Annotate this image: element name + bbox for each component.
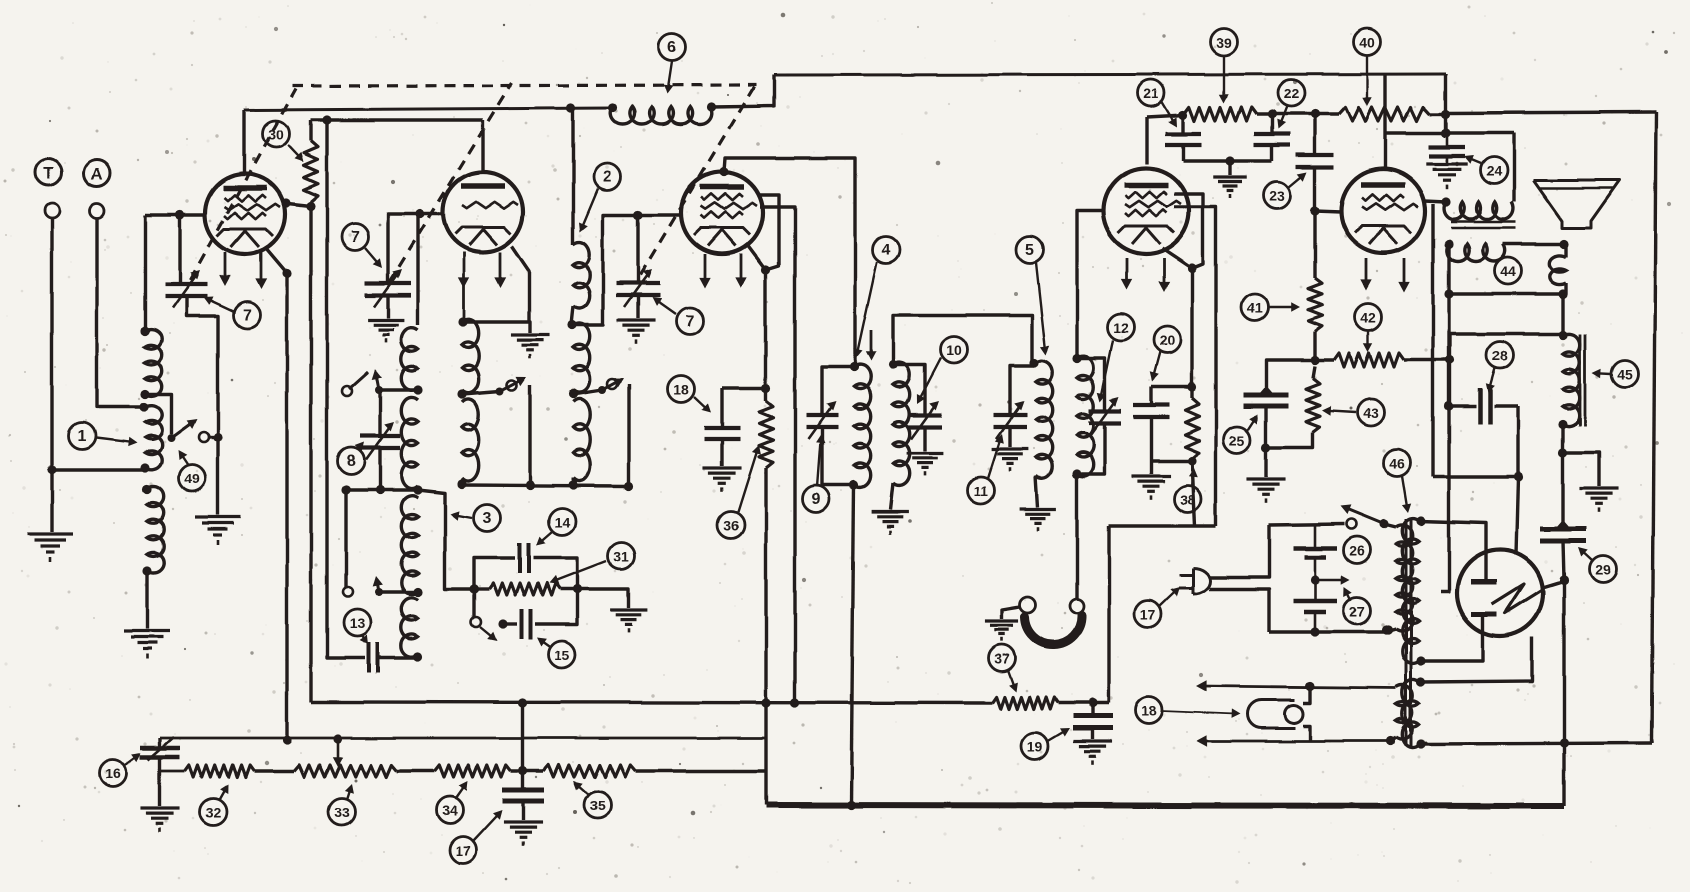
label 19 pointer (1048, 730, 1067, 741)
coil jack loop right loops (1549, 255, 1566, 284)
junction feedback line branch (322, 115, 331, 124)
capacitor C17 (502, 788, 544, 793)
wire bus end to C16 (158, 738, 161, 747)
junction coil A top (458, 317, 467, 326)
terminal T (earth) (35, 159, 62, 186)
wire anode branch down to C28 network (1431, 204, 1434, 477)
coil T-out secondary (1447, 244, 1505, 262)
svg-text:23: 23 (1269, 188, 1285, 204)
wire supply box top (1109, 524, 1216, 527)
wire to tuning cap 7a (178, 215, 181, 283)
wire bias return (1151, 459, 1192, 462)
label 1 pointer (96, 438, 134, 443)
dashed gang line from cap 7a (190, 89, 296, 280)
svg-text:41: 41 (1247, 300, 1263, 316)
coil L8 winding section 2 (401, 397, 418, 488)
junction cap 18 branch (761, 383, 770, 392)
pilot lamp 48 (1248, 700, 1295, 728)
wire cap 10 to ground (923, 427, 926, 451)
battery B1 cell 2 (1293, 599, 1337, 604)
junction filament top (1416, 677, 1425, 686)
wire grid node to cap 7b (388, 214, 420, 281)
wire R31 right lead (560, 587, 577, 590)
label 28 pointer (1489, 368, 1495, 390)
svg-text:30: 30 (268, 127, 284, 143)
ground (field return) (1579, 486, 1618, 489)
wire C18 to ground (720, 440, 723, 466)
junction battery tap (1310, 575, 1319, 584)
wire pilot winding top lead with arrow (1202, 686, 1396, 688)
svg-text:5: 5 (1026, 242, 1035, 259)
label 7 (677, 308, 704, 335)
svg-text:7: 7 (351, 229, 360, 246)
junction bottom rail / primary (1381, 625, 1390, 634)
wire W1 left down to switch 13 (344, 490, 347, 588)
ground (coil 10) (872, 510, 909, 513)
wire link to R31 network (418, 490, 474, 589)
ground (R31 network) (611, 608, 648, 611)
label 18 (1136, 697, 1163, 724)
wire C15 left lead (503, 622, 517, 625)
wire primary bottom stub (1389, 629, 1396, 631)
coil T46 HT secondary (1402, 519, 1419, 664)
junction R30 bottom (306, 201, 315, 210)
wire L2s bottom (571, 478, 574, 485)
label 11 (968, 477, 995, 504)
wire R36 bottom to HT- bus (764, 468, 767, 805)
junction coil 12 top (1072, 353, 1081, 362)
wire cap 8 top lead (378, 391, 381, 434)
svg-text:20: 20 (1159, 333, 1175, 349)
wire cap 11 lead (1010, 366, 1034, 414)
coil L8 winding section 4 (401, 598, 418, 657)
wire R39 left lead (1147, 115, 1184, 117)
wire switch to primary (1384, 524, 1396, 527)
battery tap (1315, 579, 1344, 582)
label 11 pointer (988, 437, 1001, 478)
wire cathode/AVC line down (764, 270, 767, 401)
junction V3 anode stub (719, 167, 728, 176)
wire plug bottom lead (1209, 589, 1269, 632)
wire coil1 secondary to ground (145, 571, 148, 629)
wire C19 top lead (1091, 703, 1094, 715)
wire HT rail (top bus) (774, 74, 1446, 75)
wire DC minus riser (1562, 580, 1565, 806)
wire jack loop left edge (1447, 244, 1450, 294)
label 26 (1344, 537, 1371, 564)
wire V5 anode to output transformer (1424, 201, 1446, 202)
junction jack loop bottom left (1444, 289, 1453, 298)
label 14 pointer (538, 532, 552, 544)
wire C29 bottom (1563, 541, 1564, 580)
wire plug top lead (1209, 525, 1269, 577)
coil L45 (speaker field) (1563, 334, 1580, 426)
junction R31 left node (469, 584, 478, 593)
wire battery bottom rail (1269, 630, 1390, 633)
switch mains (on-off) (1380, 520, 1388, 528)
resistor R33 (potentiometer) (294, 765, 397, 777)
label 20 (1154, 327, 1181, 354)
wire V4 cathode (1162, 248, 1192, 268)
ground (C24) (1426, 162, 1467, 165)
svg-text:18: 18 (1141, 703, 1157, 719)
junction coil4 return / bus (846, 800, 855, 809)
junction V3 grid / cap 7c (633, 210, 642, 219)
junction coil1 secondary bottom (142, 566, 151, 575)
junction coil1 upper top (140, 326, 149, 335)
wire field node to C29 (1561, 452, 1564, 528)
junction coil1 secondary top (142, 484, 151, 493)
svg-text:4: 4 (882, 242, 891, 259)
svg-text:7: 7 (243, 307, 252, 324)
wire coil 4 bottom to HT- bus (851, 485, 854, 805)
junction L2s tap (568, 389, 577, 398)
wire cap 9 bracket bottom (822, 427, 854, 485)
ground (cap 7b) (368, 318, 405, 321)
V5 filament pin (1403, 258, 1406, 288)
label 3 pointer (453, 515, 472, 518)
label 13 (344, 610, 371, 637)
junction coil6 left (608, 103, 617, 112)
junction L8 tap 1 (413, 385, 422, 394)
label 27 (1344, 598, 1371, 625)
junction C15 lead (498, 619, 507, 628)
label 18 pointer (lamp) (1162, 711, 1236, 714)
wire R34-R35 (511, 769, 543, 772)
resistor R31 (489, 583, 560, 595)
wire V4 screen right (1174, 194, 1203, 268)
junction R39 right / C22 (1267, 109, 1276, 118)
wire R38 bottom (1190, 459, 1193, 461)
wire lamp bottom lead (1303, 726, 1310, 741)
wire V2 grid left (420, 212, 443, 215)
label 19 (1022, 733, 1049, 760)
svg-text:38: 38 (1180, 492, 1196, 508)
wire C28 lead (1449, 404, 1476, 407)
wire C28 rail to coil 45 (1450, 334, 1563, 360)
label 8 (338, 448, 365, 475)
wire primary bottom (1388, 628, 1391, 632)
wire cap 7a bottom (186, 297, 218, 433)
wire V3 screen grid right (758, 195, 779, 270)
ground (C25) (1246, 477, 1285, 480)
label 45 pointer (1595, 372, 1611, 375)
dashed gang line from cap 7c (640, 87, 754, 275)
ground (C16) (140, 806, 179, 809)
dashed gang line from cap 7b (389, 83, 512, 283)
coil T46 primary (1396, 525, 1413, 631)
wire coil 10 to ground (890, 483, 893, 510)
coil L5 (2nd IF primary) (1036, 361, 1053, 479)
wire R43 bottom (1266, 432, 1313, 448)
ground (C10) (907, 451, 944, 454)
svg-text:33: 33 (334, 805, 350, 821)
wire L2s tap to switch (576, 390, 602, 394)
label 41 pointer (1269, 306, 1297, 308)
core coil 45 (1579, 334, 1582, 426)
svg-text:10: 10 (946, 343, 962, 359)
wire bottom branch (472, 589, 475, 618)
wire switch 49 to ground line (209, 435, 218, 438)
wire V1 grid-2 to resistor 30 (283, 203, 311, 206)
wire C28 left lead (1448, 360, 1451, 406)
junction link W1 left (341, 485, 350, 494)
junction A-wire at coil1 (139, 402, 148, 411)
wire C13 to L8 bottom (378, 656, 418, 659)
wire top branch to C14 (474, 558, 515, 589)
wire R30 bottom down (screen line) (309, 206, 312, 702)
wire HT sec bottom to lower plate (1419, 616, 1483, 661)
ground (C21/C22) (1213, 175, 1248, 178)
wire cap 20 lead (1151, 385, 1192, 388)
V6 filament zigzag electrode (1492, 584, 1542, 613)
junction bottom right rail (1559, 738, 1568, 747)
coil L2 secondary section 1 (573, 323, 590, 392)
capacitor C29 (reservoir) (1540, 527, 1586, 532)
terminal A binding post (90, 204, 105, 219)
junction cathode line / lower bus (282, 735, 291, 744)
svg-text:17: 17 (455, 843, 471, 859)
junction C29 / rectifier output (1559, 575, 1568, 584)
label 23 (1264, 182, 1291, 209)
wire lamp top lead (1303, 686, 1310, 703)
capacitor C14 (518, 543, 522, 573)
capacitor C7b (ganged tuning) (365, 281, 411, 285)
junction cap8 / link wire (375, 485, 384, 494)
headphone plug arc (1025, 615, 1082, 645)
label 2 pointer (581, 189, 598, 229)
wire resistor chain line (160, 770, 185, 773)
junction L3 tap (457, 389, 466, 398)
svg-text:7: 7 (686, 313, 695, 330)
V1 filament pin (260, 252, 263, 285)
wire C23 top lead (1313, 114, 1316, 154)
junction W3 / coil B (568, 480, 577, 489)
label 10 (941, 337, 968, 364)
wire L2s top to V3 grid (573, 215, 682, 325)
wire feedback line R30 to V2 anode (311, 118, 483, 121)
ground (coil 1 secondary) (124, 629, 170, 632)
label 13 pointer (361, 635, 366, 643)
label 17 (1135, 601, 1162, 628)
V2 left pin to coil (463, 252, 466, 322)
wire HT top to upper plate (1419, 521, 1486, 582)
wire C28 right lead (1494, 404, 1518, 407)
valve V4 (detector) (1103, 168, 1189, 254)
svg-text:40: 40 (1359, 35, 1375, 51)
junction coil1 tap (140, 389, 149, 398)
svg-text:49: 49 (184, 471, 200, 487)
resistor R30 (304, 141, 318, 202)
wire lower bus (grid return) (160, 737, 766, 740)
svg-text:37: 37 (994, 651, 1010, 667)
junction jack loop bottom right (1558, 289, 1567, 298)
wire L8 tap to switch (379, 388, 418, 391)
wire R38 node to supply box (1192, 461, 1195, 526)
svg-text:3: 3 (483, 510, 492, 527)
terminal phone jack left (1020, 597, 1036, 613)
wire cap 12 bracket lower (1077, 424, 1105, 474)
switch 49 (aerial tap selector) (167, 434, 175, 442)
wire L2 primary bottom (571, 306, 573, 325)
junction cap 24 node (1441, 128, 1450, 137)
label 5 pointer (1036, 263, 1046, 352)
wire jack loop to HT centre tap (1441, 294, 1449, 592)
junction coil 4 top (849, 362, 858, 371)
wire V2 anode to feedback line (481, 120, 484, 172)
resistor R41 (grid leak) (1308, 278, 1322, 331)
wire switch target line right (627, 384, 630, 486)
wire switch to L8 tap2 (379, 590, 418, 593)
junction grid3 line / bottom wire (790, 698, 799, 707)
coil L2 primary (reaction) (573, 242, 590, 309)
svg-text:19: 19 (1027, 739, 1043, 755)
wire C15 to right node (535, 589, 577, 624)
junction cap7a return / switch (213, 432, 222, 441)
wire link W1 (346, 488, 418, 491)
label 18 pointer (694, 397, 709, 411)
svg-text:46: 46 (1389, 456, 1405, 472)
junction V4 cathode node (1187, 263, 1196, 272)
wire R32-R33 (254, 769, 294, 772)
valve V3 (RF/IF amplifier) (681, 172, 763, 254)
label 29 (1590, 556, 1617, 583)
resistor R40 (1339, 107, 1430, 121)
label 44 (1495, 258, 1522, 285)
wire jack loop right edge lower (1564, 283, 1567, 294)
svg-text:24: 24 (1486, 163, 1502, 179)
wire R33-R34 (397, 769, 435, 772)
wire coil1 tap to switch 49 (145, 394, 171, 434)
wire jack loop to coil 45 (1561, 294, 1564, 336)
svg-text:26: 26 (1349, 543, 1365, 559)
V3 filament pin (740, 254, 743, 284)
dashed gang bus (292, 85, 756, 86)
wire C25 top lead (1266, 360, 1315, 394)
junction HT bus / coil2 feed (566, 103, 575, 112)
label 7c pointer (654, 299, 676, 314)
label 21 pointer (1162, 102, 1175, 124)
label 5 (1017, 237, 1044, 264)
coil L1 secondary (147, 486, 164, 573)
capacitor C7a (ganged tuning) (165, 282, 207, 286)
label 38 pointer (1192, 471, 1194, 487)
label 37 pointer (1008, 670, 1015, 689)
wire jack left to ground (1002, 607, 1020, 619)
wire filament winding bottom to rail (1419, 743, 1427, 745)
junction jack loop top right (1559, 239, 1568, 248)
label 10 pointer (918, 358, 941, 401)
coil L6 (RF choke) (611, 107, 712, 125)
resistor R39 (1184, 107, 1257, 121)
ground (phone jack) (985, 619, 1018, 622)
wire C22 bottom lead (1270, 145, 1273, 161)
switch (waveband, coil 8 upper) (375, 386, 383, 394)
svg-text:12: 12 (1113, 320, 1129, 336)
junction W3 right (624, 481, 633, 490)
wire R42 right lead (1404, 358, 1450, 361)
junction lamp / winding top (1305, 681, 1314, 690)
junction AVC / R36 line (761, 698, 770, 707)
junction primary bottom (1383, 625, 1392, 634)
coil L4 (IF primary) (854, 365, 871, 488)
junction coil 45 top (1558, 330, 1567, 339)
svg-text:11: 11 (974, 483, 989, 499)
label 7a pointer (206, 298, 233, 311)
coil L3 primary section 2 (462, 399, 479, 481)
svg-text:18: 18 (673, 382, 689, 398)
junction tap arrow (333, 734, 342, 743)
wire cathode return to ground (216, 437, 219, 515)
wire switch target line (528, 385, 531, 485)
ground (C19) (1073, 739, 1112, 742)
label 7 (342, 224, 369, 251)
svg-text:T: T (43, 164, 54, 183)
label 32 (200, 799, 227, 826)
coil L8 winding section 1 (401, 328, 418, 391)
wire V6 output (1541, 581, 1564, 588)
label 32 pointer (219, 787, 227, 800)
ground (V4 cathode) (1131, 474, 1170, 477)
wire supply box left edge (1107, 526, 1110, 703)
label 4 (873, 237, 900, 264)
junction R39 left / C21 (1178, 110, 1187, 119)
label 15 (549, 641, 576, 668)
label 33 (329, 799, 356, 826)
junction AVC line / box (518, 698, 527, 707)
svg-text:27: 27 (1349, 604, 1365, 620)
wire C21 bottom lead (1181, 145, 1184, 161)
wire C28 right riser (1516, 406, 1519, 477)
switch arm upper (open) (349, 372, 368, 389)
label 22 (1278, 80, 1305, 107)
svg-text:13: 13 (349, 616, 365, 632)
wire V3 anode to coil 4 (724, 158, 855, 367)
wire R43 top lead (1313, 366, 1315, 378)
wire HT negative bus (thick) (766, 805, 1564, 806)
V4 filament pin (1163, 258, 1166, 288)
junction C28 return / rectifier (1513, 472, 1522, 481)
junction winding bottom (1385, 736, 1394, 745)
junction R38 / C20 return (1187, 456, 1196, 465)
wire R35 to riser (636, 769, 766, 772)
junction R42 / C28 node (1445, 355, 1454, 364)
coil L12 (detector input) (1077, 356, 1094, 477)
junction chain / C17 (518, 766, 527, 775)
label 33 pointer (347, 787, 351, 800)
wire C20 bottom lead (1149, 417, 1152, 461)
junction T wire / coil-1 return (47, 465, 56, 474)
wire cap 18 lead (722, 386, 766, 389)
svg-text:1: 1 (78, 428, 87, 445)
coil L1 primary upper section (145, 329, 162, 396)
label 6 pointer (667, 61, 672, 91)
wire screen sub-rail (1385, 131, 1514, 134)
wire HT corner down (1444, 74, 1447, 133)
switch (coil 8 lower tap) (375, 588, 383, 596)
resistor R37 (volume) (992, 697, 1058, 709)
ground (coil 5) (1020, 507, 1057, 510)
V3 filament pin (704, 254, 707, 284)
svg-text:22: 22 (1283, 86, 1299, 102)
svg-text:32: 32 (205, 805, 221, 821)
label 17 pointer (473, 812, 500, 841)
svg-text:14: 14 (554, 515, 570, 531)
capacitor C7c (ganged tuning) (616, 281, 660, 285)
label 40 pointer (1366, 56, 1368, 103)
label 46 pointer (1402, 476, 1408, 510)
junction target line bottom (525, 480, 534, 489)
